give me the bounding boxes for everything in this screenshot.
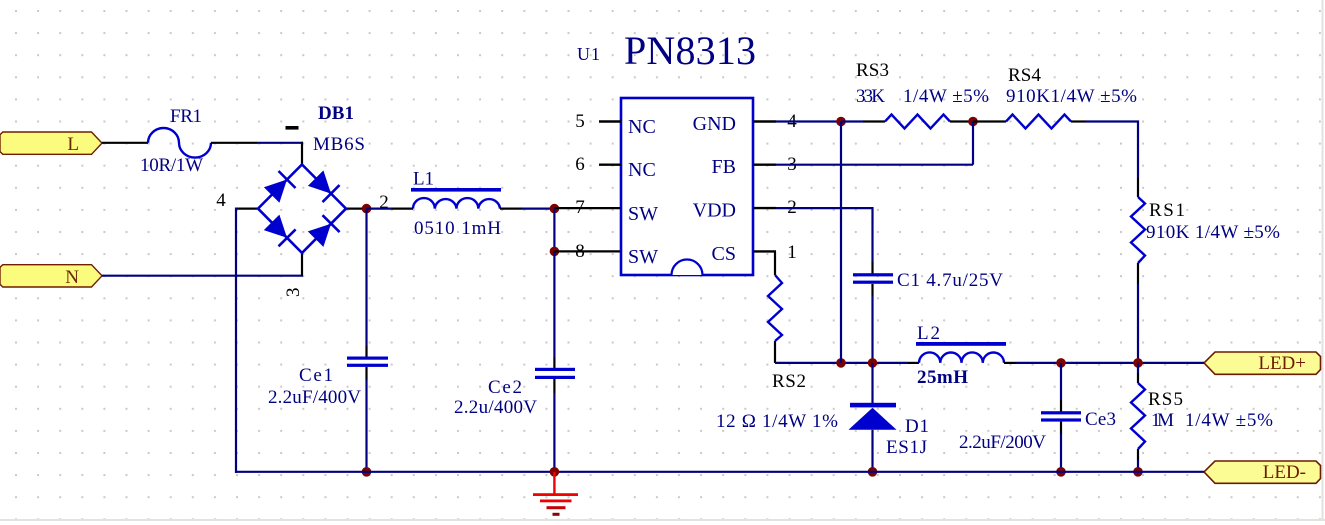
U1 pin 5 stub <box>599 120 621 122</box>
fuse-resistor FR1 symbol <box>148 128 211 158</box>
svg-text:1: 1 <box>787 242 797 263</box>
wire Ce1 drop from node2 <box>365 209 367 346</box>
capacitor Ce3 <box>1041 411 1081 421</box>
wire Ce3 top <box>1060 363 1062 400</box>
RS4 left lead <box>973 120 1006 122</box>
Ce2 bottom lead <box>553 379 555 393</box>
wire L2 to LED+ port <box>1016 362 1204 364</box>
svg-text:GND: GND <box>693 113 736 135</box>
L1 left lead <box>392 208 413 210</box>
svg-text:Ce1: Ce1 <box>299 365 333 386</box>
wire N to DB1 bottom <box>102 275 303 277</box>
node Ce3 bottom junction dot <box>1056 467 1066 477</box>
inductor L2 bar <box>916 342 1006 346</box>
svg-text:1/4W ±5%: 1/4W ±5% <box>903 86 989 107</box>
svg-text:10R/1W: 10R/1W <box>140 155 203 176</box>
resistor RS1 <box>1131 197 1145 263</box>
L1 right lead <box>500 208 522 210</box>
U1 pin 3 stub <box>753 163 776 165</box>
wire node B down to FB line <box>972 122 974 165</box>
wire bottom rail <box>236 471 1204 473</box>
svg-text:SW: SW <box>628 246 658 268</box>
inductor L1 bar <box>411 188 501 192</box>
node Ce3 top junction dot <box>1056 358 1066 368</box>
svg-text:LED+: LED+ <box>1258 353 1306 374</box>
svg-text:C1 4.7u/25V: C1 4.7u/25V <box>897 270 1003 291</box>
inductor L1 coil <box>413 198 500 209</box>
svg-text:Ce2: Ce2 <box>488 377 522 398</box>
svg-text:33K: 33K <box>856 86 885 107</box>
svg-text:L1: L1 <box>413 169 434 190</box>
svg-text:5: 5 <box>575 111 585 132</box>
RS3 left lead <box>863 120 885 122</box>
port L <box>0 132 102 155</box>
wire pin7 node down to pin8 node <box>553 209 555 252</box>
node pin8 junction dot <box>550 247 560 257</box>
RS5 top lead <box>1137 373 1139 383</box>
svg-text:VDD: VDD <box>693 200 736 222</box>
capacitor Ce1 <box>347 357 388 367</box>
svg-text:2.2u/400V: 2.2u/400V <box>454 397 537 418</box>
inductor L2 coil <box>919 352 1004 362</box>
wire pin8 node down to Ce2 <box>553 251 555 357</box>
svg-text:4: 4 <box>216 190 226 211</box>
node B junction dot (RS3/RS4/FB) <box>968 117 978 127</box>
capacitor Ce2 <box>535 368 575 379</box>
diode D1 top wire <box>871 363 873 403</box>
svg-text:RS1: RS1 <box>1149 200 1185 221</box>
wire LED+ rail left <box>775 362 908 364</box>
node RS1/RS5 LED+ junction dot <box>1133 358 1143 368</box>
bridge DB1 pin stub top <box>301 142 303 165</box>
wire Ce1 to bottom rail <box>365 380 367 472</box>
svg-text:N: N <box>65 267 79 288</box>
U1 pin 2 stub <box>753 207 776 209</box>
svg-text:FB: FB <box>712 156 736 178</box>
wire node A to RS3 <box>841 120 863 122</box>
resistor RS3 <box>885 115 950 129</box>
RS1 top lead <box>1137 178 1139 197</box>
Ce1 top lead <box>365 346 367 358</box>
DB1 diode bottom-left <box>264 215 296 247</box>
svg-text:2: 2 <box>379 192 389 213</box>
wire node A riser (GND to rail) <box>840 122 842 363</box>
svg-text:MB6S: MB6S <box>313 134 365 155</box>
resistor RS2 <box>768 275 782 341</box>
C1 top lead <box>871 262 873 275</box>
U1 pin 1 stub <box>753 250 776 252</box>
svg-text:3: 3 <box>283 288 304 298</box>
U1 pin 6 stub <box>599 163 621 165</box>
DB1 diode bottom-right <box>308 215 340 247</box>
svg-text:25mH: 25mH <box>917 367 968 388</box>
wire FB pin to node B <box>776 164 973 166</box>
svg-text:CS: CS <box>712 243 736 265</box>
wire pin8 stub <box>554 250 621 252</box>
node RS5 bottom junction dot <box>1133 467 1143 477</box>
svg-text:0510 1mH: 0510 1mH <box>414 218 501 239</box>
wire C1 to LED+ rail <box>871 296 873 363</box>
sheet border bottom <box>0 519 1325 521</box>
svg-text:L: L <box>67 134 79 155</box>
L2 left lead <box>908 362 919 364</box>
wire GND pin to node A <box>776 120 841 122</box>
node pin7 junction dot <box>550 204 560 214</box>
resistor RS5 <box>1131 383 1145 449</box>
Ce2 top lead <box>553 357 555 369</box>
svg-text:Ce3: Ce3 <box>1085 409 1116 430</box>
bridge DB1 pin stub left <box>235 208 258 210</box>
svg-text:RS3: RS3 <box>856 60 889 81</box>
svg-text:1M: 1M <box>1151 410 1174 431</box>
RS5 bottom lead <box>1137 449 1139 460</box>
port N <box>0 265 102 288</box>
bridge DB1 pin stub right <box>346 208 367 210</box>
svg-text:6: 6 <box>575 154 585 175</box>
svg-text:8: 8 <box>575 241 585 262</box>
wire Ce3 to bottom rail <box>1060 434 1062 472</box>
RS1 bottom lead <box>1137 263 1139 284</box>
capacitor C1 <box>853 273 893 284</box>
svg-text:7: 7 <box>575 197 585 218</box>
svg-text:SW: SW <box>628 203 658 225</box>
svg-text:RS5: RS5 <box>1148 389 1183 410</box>
wire DB1 left to bottom rail <box>235 208 237 473</box>
svg-text:PN8313: PN8313 <box>624 28 756 73</box>
svg-text:DB1: DB1 <box>318 103 354 124</box>
wire L to FR1 <box>102 142 148 144</box>
svg-text:1/4W ±5%: 1/4W ±5% <box>1185 410 1273 431</box>
node D1 bottom junction dot <box>868 467 878 477</box>
svg-text:D1: D1 <box>905 416 929 437</box>
node A junction dot (GND net) <box>836 117 846 127</box>
port LED- <box>1204 461 1321 483</box>
RS2 bottom lead <box>774 341 776 363</box>
wire RS5 top <box>1137 363 1139 373</box>
svg-text:2.2uF/400V: 2.2uF/400V <box>268 387 361 408</box>
svg-text:RS2: RS2 <box>772 371 806 392</box>
svg-text:LED-: LED- <box>1263 462 1306 483</box>
wire node2 to L1 <box>367 208 393 210</box>
node GND riser to rail junction dot <box>836 358 846 368</box>
wire RS4 to RS1 column <box>1086 122 1138 179</box>
RS3 right lead <box>950 120 973 122</box>
bridge DB1 pin stub bottom <box>301 253 303 277</box>
D1 bottom wire <box>871 430 873 472</box>
svg-text:L2: L2 <box>917 323 940 344</box>
svg-text:910K1/4W ±5%: 910K1/4W ±5% <box>1006 86 1137 107</box>
Ce3 bottom lead <box>1060 422 1062 434</box>
wire pin7 stub <box>554 207 621 209</box>
wire L1 to pin7 node <box>522 208 554 210</box>
DB1 diode top-right <box>308 170 340 202</box>
svg-text:ES1J: ES1J <box>886 437 927 458</box>
diode D1 <box>849 403 897 430</box>
resistor RS4 <box>1006 115 1071 129</box>
DB1 minus mark <box>286 126 299 130</box>
wire RS5 to LED- rail <box>1137 460 1139 472</box>
svg-text:U1: U1 <box>577 44 600 64</box>
wire CS pin down to RS2 <box>774 251 776 275</box>
U1 pin 4 stub <box>753 120 776 122</box>
wire VDD pin to C1 column <box>776 208 873 262</box>
op-amp U1 IC body PN8313 <box>621 98 753 275</box>
svg-text:2.2uF/200V: 2.2uF/200V <box>959 432 1046 453</box>
svg-text:RS4: RS4 <box>1008 65 1042 86</box>
bridge rectifier DB1 diamond <box>258 165 346 253</box>
node Ce2/ground junction dot <box>550 467 560 477</box>
wire Ce2 to bottom rail <box>553 393 555 472</box>
svg-text:NC: NC <box>628 116 656 138</box>
Ce3 top lead <box>1060 400 1062 413</box>
svg-text:FR1: FR1 <box>170 106 202 127</box>
DB1 diode top-left <box>264 171 296 203</box>
sheet border right <box>1322 0 1324 520</box>
port LED+ <box>1204 352 1321 374</box>
wire FR1 to DB1 top <box>257 142 303 144</box>
FR1 right lead <box>211 142 257 144</box>
Ce1 bottom lead <box>365 367 367 380</box>
svg-text:910K 1/4W ±5%: 910K 1/4W ±5% <box>1146 222 1280 243</box>
L2 right lead <box>1004 362 1016 364</box>
node pin2 junction dot <box>362 204 372 214</box>
svg-text:12 Ω 1/4W 1%: 12 Ω 1/4W 1% <box>716 411 838 432</box>
svg-text:NC: NC <box>628 159 656 181</box>
node Ce1 bottom junction dot <box>362 467 372 477</box>
wire RS1 to LED+ node <box>1137 284 1139 363</box>
RS4 right lead <box>1071 120 1086 122</box>
ground symbol <box>533 472 578 516</box>
node D1 top junction dot <box>868 358 878 368</box>
C1 bottom lead <box>871 284 873 296</box>
